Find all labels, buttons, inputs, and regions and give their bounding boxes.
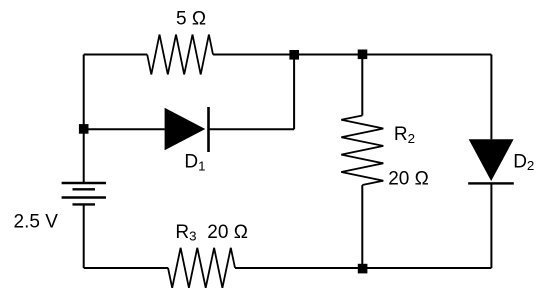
svg-text:5 Ω: 5 Ω <box>176 8 206 29</box>
svg-text:20 Ω: 20 Ω <box>207 222 248 243</box>
svg-text:20 Ω: 20 Ω <box>388 169 429 190</box>
svg-text:2.5 V: 2.5 V <box>14 211 59 232</box>
